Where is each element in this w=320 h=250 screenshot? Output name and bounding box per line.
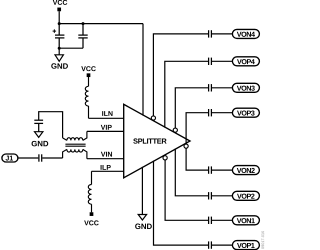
pin VON4 bubble [151, 116, 155, 120]
pin VON3 bubble [173, 128, 177, 132]
wire cap to VON2 label [212, 169, 232, 171]
node VOP4 label [232, 57, 259, 66]
wire VCC riser to splitter [142, 24, 144, 116]
wire VCC rail [59, 23, 143, 25]
wire cap to VOP4 label [212, 60, 232, 62]
wire cap to VON4 label [212, 33, 232, 35]
wire gnd riser splitter [141, 167, 143, 215]
capacitor C3 (input shunt) [34, 120, 43, 132]
capacitor VOP1 coupling [209, 241, 212, 248]
node ILP label [101, 165, 111, 170]
node junction rail-C1 [58, 22, 61, 25]
VCC terminal below L2 [90, 212, 94, 216]
wire cap to VON3 label [212, 87, 232, 89]
node VON4 label [232, 29, 259, 38]
ground top-left [51, 55, 68, 69]
node VON1 label [232, 216, 259, 225]
capacitor VON3 coupling [209, 84, 212, 91]
wire C4 to transformer [42, 157, 62, 159]
wire VOP1 [154, 161, 209, 245]
wire cap to VOP3 label [212, 112, 232, 114]
capacitor C4 (input coupling) [39, 154, 42, 161]
wire cap to VOP2 label [212, 195, 232, 197]
wire VON4 [153, 34, 208, 116]
capacitor VOP3 coupling [209, 109, 212, 116]
capacitor VON1 coupling [209, 217, 212, 224]
wire J1 to C4 [18, 157, 38, 159]
pin VON2 bubble [184, 144, 188, 148]
op-amp / splitter U1 [124, 104, 190, 178]
inductor L2 (ILP choke) [88, 171, 91, 212]
capacitor VON2 coupling [209, 166, 212, 173]
wire VON1 [165, 160, 208, 221]
capacitor C1 (electrolytic) [55, 24, 64, 49]
VCC terminal top-left [57, 8, 61, 12]
ground near transformer [32, 132, 49, 147]
wire VIN [87, 158, 124, 160]
wire VON2 [186, 146, 208, 170]
node VOP1 label [232, 241, 259, 250]
VCC label top-left [53, 0, 68, 5]
node VON2 label [232, 166, 259, 175]
wire VIP [87, 130, 124, 132]
node ILN label [102, 111, 112, 116]
wire ILN [89, 117, 124, 119]
capacitor VON4 coupling [209, 30, 212, 37]
wire cap to VOP1 label [212, 244, 232, 246]
connector J1 [2, 154, 18, 162]
wire ILP [92, 170, 124, 172]
inductor L1 (ILN choke) [85, 77, 88, 118]
capacitor C1 polarity mark [53, 29, 57, 32]
wire transformer primary top to C3 [39, 112, 63, 138]
node VOP2 label [232, 191, 259, 200]
capacitor C2 (decoupling) [78, 24, 87, 49]
wire VON3 [175, 88, 208, 128]
wire VCC stub [58, 11, 60, 23]
VCC label below L2 [84, 220, 99, 225]
figure number [261, 231, 264, 249]
node junction rail-C2 [82, 22, 85, 25]
wire VOP2 [175, 149, 208, 196]
node VOP3 label [232, 108, 259, 117]
capacitor VOP2 coupling [209, 192, 212, 199]
wire gnd stub top-left [58, 48, 60, 55]
ground splitter bottom [135, 215, 152, 230]
pin VON1 bubble [163, 156, 167, 160]
wire VOP3 [186, 113, 208, 146]
transformer T1 [63, 131, 87, 158]
VCC label above L1 [81, 66, 96, 71]
node VON3 label [232, 83, 259, 92]
node junction below C1 [58, 47, 61, 50]
node VIN label [101, 152, 112, 157]
capacitor VOP4 coupling [209, 58, 212, 65]
wire VOP4 [165, 61, 209, 127]
wire cap to VON1 label [212, 219, 232, 221]
VCC terminal above L1 [87, 73, 91, 77]
node VIP label [101, 125, 112, 130]
wire cap bottoms link [59, 47, 83, 49]
